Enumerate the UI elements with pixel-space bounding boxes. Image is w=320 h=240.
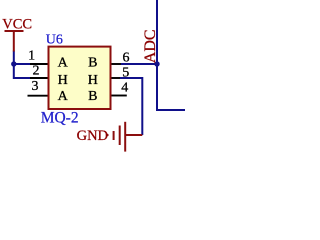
svg-text:H: H bbox=[88, 73, 98, 88]
svg-text:U6: U6 bbox=[46, 33, 63, 48]
svg-text:ADC: ADC bbox=[142, 29, 159, 63]
svg-text:VCC: VCC bbox=[2, 17, 32, 33]
svg-text:B: B bbox=[88, 89, 97, 104]
svg-text:5: 5 bbox=[122, 66, 129, 81]
svg-text:H: H bbox=[58, 73, 68, 88]
svg-text:4: 4 bbox=[121, 80, 128, 95]
svg-text:6: 6 bbox=[123, 50, 130, 65]
svg-text:GND: GND bbox=[77, 128, 108, 144]
svg-text:3: 3 bbox=[32, 79, 39, 94]
svg-text:2: 2 bbox=[33, 64, 40, 79]
svg-text:A: A bbox=[58, 89, 69, 104]
svg-text:1: 1 bbox=[28, 48, 35, 63]
svg-text:A: A bbox=[58, 55, 69, 70]
svg-text:B: B bbox=[88, 55, 97, 70]
svg-text:MQ-2: MQ-2 bbox=[41, 110, 79, 127]
